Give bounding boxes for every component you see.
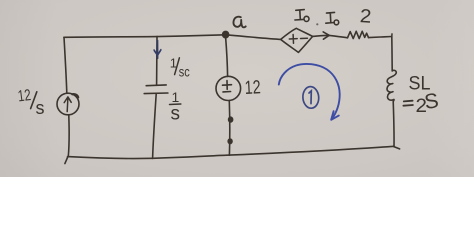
- label Io (right): [326, 12, 335, 23]
- voltage source minus: [223, 91, 231, 93]
- voltage source circle: [216, 76, 241, 100]
- current arrow Io on wire: [313, 35, 329, 36]
- label 12/s slash: [31, 92, 37, 109]
- resistor R 2 (zigzag): [348, 31, 369, 38]
- label 12: [244, 77, 261, 99]
- svg-text:s: s: [171, 104, 181, 125]
- wire: left bottom overshoot tail: [65, 157, 68, 164]
- wire: top-right corner overshoot: [391, 34, 393, 37]
- dependent source minus: [301, 37, 308, 39]
- capacitor branch lower wire: [153, 94, 157, 158]
- mesh label 1 (blue circled): [302, 86, 319, 109]
- label = 2S: [416, 89, 441, 117]
- svg-text:sc: sc: [179, 64, 190, 80]
- voltage source branch lower wire: [228, 101, 230, 156]
- label 1/s fraction: [171, 89, 181, 125]
- mesh current 1 arrow (blue arc): [279, 64, 340, 120]
- current arrow blue (capacitor branch): [154, 41, 161, 59]
- label Io (left, above diamond): [295, 10, 304, 20]
- wire: bottom-right corner tail: [394, 147, 400, 149]
- stray ink dot: [316, 23, 318, 25]
- voltage source plus: [223, 81, 232, 90]
- wire: node a to dependent source: [226, 35, 281, 40]
- svg-text:s: s: [36, 98, 45, 118]
- junction blob 2: [228, 139, 232, 144]
- label 1/sc: [170, 56, 190, 80]
- current source Is (circle): [57, 93, 79, 115]
- svg-text:2: 2: [359, 6, 372, 28]
- wire: left vertical: [64, 37, 67, 93]
- dependent source U1 (diamond): [281, 28, 313, 52]
- wire: resistor to right corner: [369, 37, 392, 38]
- wire: top, left corner to capacitor junction: [64, 36, 157, 39]
- junction blob 1: [229, 117, 233, 122]
- label a (script): [233, 17, 245, 28]
- capacitor top plate: [146, 84, 166, 87]
- label 12/s: [17, 87, 45, 118]
- capacitor branch upper wire: [156, 37, 158, 85]
- wire: arrow to resistor: [329, 35, 348, 37]
- wire: top, capacitor junction to node a: [157, 35, 226, 37]
- capacitor bottom plate: [144, 92, 168, 95]
- label 2 (resistor): [359, 6, 372, 28]
- current source top-right pen curl: [72, 94, 78, 97]
- svg-text:12: 12: [244, 77, 261, 99]
- current source arrow: [66, 97, 69, 111]
- label = 2S equals sign: [403, 101, 413, 106]
- inductor sL coil: [387, 70, 396, 101]
- svg-text:12: 12: [17, 87, 32, 105]
- wire: right vertical lower: [392, 101, 395, 147]
- dependent source plus: [289, 35, 297, 44]
- node a (junction dot): [223, 31, 229, 37]
- paper background: [0, 0, 474, 177]
- voltage source branch upper wire: [226, 37, 228, 76]
- wire: right vertical upper: [391, 37, 393, 72]
- label SL: [409, 74, 431, 95]
- wire: bottom: [68, 146, 395, 158]
